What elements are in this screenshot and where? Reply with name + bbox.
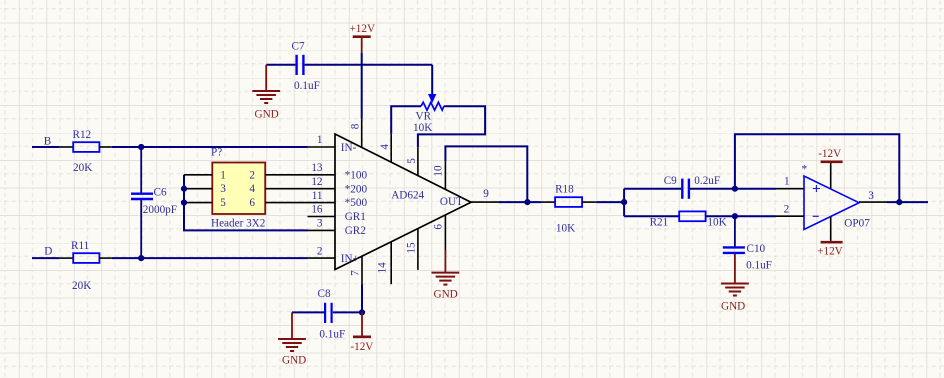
header pin 6 to AD624 pin 11 <box>265 202 335 204</box>
svg-text:10K: 10K <box>707 216 726 228</box>
svg-text:2: 2 <box>249 169 255 181</box>
wire +12V to VR wiper <box>431 65 433 96</box>
svg-text:6: 6 <box>433 224 445 230</box>
svg-text:1: 1 <box>784 176 790 188</box>
svg-text:10: 10 <box>433 165 445 177</box>
wire +12V rail <box>266 64 295 66</box>
pin 3 stub <box>308 229 336 231</box>
pin 14 stub <box>390 242 392 284</box>
pin 4 stub <box>390 134 392 162</box>
svg-text:0.1uF: 0.1uF <box>294 80 320 92</box>
pin 9 output stub <box>471 201 499 203</box>
wire C10 top lead <box>734 216 736 246</box>
svg-text:R11: R11 <box>71 240 89 252</box>
svg-text:OP07: OP07 <box>844 218 870 230</box>
resistor R11 right pin <box>99 257 111 259</box>
svg-text:*200: *200 <box>345 183 368 195</box>
svg-text:GR2: GR2 <box>345 225 366 237</box>
resistor R11 left pin <box>59 257 73 259</box>
junction header pin5 <box>181 200 187 206</box>
plus mark <box>813 185 820 192</box>
junction D/C6 <box>138 255 144 261</box>
wire R21 to node <box>706 215 735 217</box>
pin 1 stub <box>308 146 336 148</box>
power -12V (top) <box>830 162 832 189</box>
svg-text:R18: R18 <box>555 183 574 195</box>
svg-text:5: 5 <box>406 158 418 164</box>
wire to AD624 pin 1 <box>112 146 308 148</box>
svg-text:3: 3 <box>317 218 323 230</box>
svg-text:Header 3X2: Header 3X2 <box>211 218 265 230</box>
resistor R11 <box>73 253 99 263</box>
svg-text:*: * <box>802 164 808 176</box>
svg-text:11: 11 <box>312 190 323 202</box>
ground GND (pin 6) <box>444 250 446 272</box>
op-amp U? AD624 triangle <box>335 134 471 270</box>
svg-text:GND: GND <box>434 288 458 300</box>
header pin 2 to AD624 pin 13 <box>265 174 335 176</box>
junction header pin3 <box>181 186 187 192</box>
svg-text:-12V: -12V <box>350 341 373 353</box>
svg-text:OUT: OUT <box>440 196 463 208</box>
svg-text:C9: C9 <box>664 175 677 187</box>
power +12V (bottom) <box>830 217 832 242</box>
pin 10 stub <box>444 161 446 189</box>
svg-text:20K: 20K <box>72 280 91 292</box>
junction split node <box>621 199 627 205</box>
wire OUT to R18 <box>499 201 541 203</box>
junction pin7/C8/-12V <box>359 309 365 315</box>
svg-text:5: 5 <box>220 197 226 209</box>
wire C8 right lead <box>333 311 362 313</box>
svg-text:IN+: IN+ <box>341 253 359 265</box>
resistor R18 right pin <box>582 201 596 203</box>
svg-text:IN-: IN- <box>341 142 357 154</box>
svg-text:GND: GND <box>255 109 279 121</box>
header pin 1 <box>184 174 212 176</box>
wire to AD624 pin 2 <box>112 257 308 259</box>
header pin 3 <box>184 188 212 190</box>
wire VR right to pin 5 <box>418 106 485 147</box>
wire R18 to split node <box>596 201 624 203</box>
ground GND (C8) <box>291 312 293 338</box>
svg-text:B: B <box>44 135 51 147</box>
svg-text:14: 14 <box>377 262 389 274</box>
wire +12V down to AD624 pin 8 <box>361 53 363 119</box>
wire feedback loop <box>735 134 899 202</box>
pin 3 stub <box>859 201 887 203</box>
wire VR left to pin 4 <box>391 106 421 134</box>
svg-text:C7: C7 <box>292 41 305 53</box>
svg-text:3: 3 <box>868 190 874 202</box>
wire C9 to node <box>690 188 735 190</box>
svg-text:AD624: AD624 <box>391 189 424 201</box>
svg-text:1: 1 <box>317 134 323 146</box>
svg-text:C8: C8 <box>318 288 331 300</box>
svg-text:7: 7 <box>350 270 362 276</box>
svg-text:12: 12 <box>311 176 322 188</box>
capacitor C9 <box>681 179 683 199</box>
svg-text:P?: P? <box>211 147 222 159</box>
svg-text:16: 16 <box>311 204 323 216</box>
resistor R12 left pin <box>59 146 73 148</box>
svg-text:15: 15 <box>405 242 417 254</box>
svg-text:+12V: +12V <box>350 23 376 35</box>
op-amp U2 OP07 triangle <box>804 176 859 230</box>
svg-text:4: 4 <box>379 144 391 150</box>
svg-text:-12V: -12V <box>818 148 841 160</box>
junction R21/C10 <box>732 213 738 219</box>
wire lower rail to R21 <box>624 215 679 217</box>
svg-text:0.2uF: 0.2uF <box>694 175 720 187</box>
svg-text:4: 4 <box>249 183 255 195</box>
svg-text:R12: R12 <box>73 129 92 141</box>
pin 8 stub <box>361 119 363 147</box>
pin 16 stub <box>308 216 336 218</box>
power -12V <box>361 312 363 336</box>
wire node to OP07 pin1 <box>735 188 776 190</box>
svg-text:20K: 20K <box>73 162 92 174</box>
svg-text:6: 6 <box>249 197 255 209</box>
svg-text:+12V: +12V <box>817 246 843 258</box>
junction output/feedback <box>896 199 902 205</box>
wire B input <box>32 146 59 148</box>
svg-text:R21: R21 <box>650 216 669 228</box>
resistor R12 right pin <box>99 146 111 148</box>
wire upper rail to C9 <box>624 188 681 190</box>
pin 7 stub <box>361 257 363 285</box>
svg-text:10K: 10K <box>556 222 575 234</box>
svg-text:C6: C6 <box>154 187 167 199</box>
pin 2 stub <box>308 257 336 259</box>
ground GND (C7) <box>265 65 267 91</box>
junction B/C6 <box>138 144 144 150</box>
capacitor C8 <box>324 303 326 323</box>
potentiometer VR arrow <box>428 94 436 103</box>
svg-text:GND: GND <box>282 355 306 367</box>
capacitor C7 <box>295 55 297 75</box>
svg-text:10K: 10K <box>413 122 432 134</box>
svg-text:0.1uF: 0.1uF <box>746 259 772 271</box>
wire header left common <box>184 175 308 231</box>
svg-text:13: 13 <box>311 162 323 174</box>
minus mark <box>813 215 819 217</box>
wire C6 bottom lead <box>140 200 142 258</box>
junction OUT/loop <box>524 199 530 205</box>
resistor R18 left pin <box>541 201 555 203</box>
svg-text:*100: *100 <box>345 169 368 181</box>
wire C8 left lead <box>292 311 324 313</box>
wire output <box>887 201 928 203</box>
svg-text:8: 8 <box>350 123 362 129</box>
resistor R21 <box>679 211 705 221</box>
potentiometer VR zigzag <box>421 102 444 110</box>
header P? body <box>212 163 265 215</box>
svg-text:GND: GND <box>721 301 745 313</box>
svg-text:D: D <box>44 245 52 257</box>
resistor R18 <box>555 197 582 207</box>
pin 5 stub <box>417 147 419 175</box>
junction C9/feedback <box>732 186 738 192</box>
ground GND (C10) <box>734 254 736 283</box>
svg-text:*500: *500 <box>345 197 368 209</box>
pin 15 stub <box>417 229 419 270</box>
svg-text:0.1uF: 0.1uF <box>319 328 345 340</box>
svg-text:1: 1 <box>220 169 226 181</box>
svg-text:GR1: GR1 <box>345 211 366 223</box>
svg-text:3: 3 <box>220 183 226 195</box>
wire pin 7 down <box>361 285 363 313</box>
wire pin 10 loop to output <box>445 146 527 202</box>
pin 1 stub <box>776 188 804 190</box>
svg-text:9: 9 <box>483 188 489 200</box>
capacitor C10 <box>723 246 745 248</box>
wire D input <box>32 257 59 259</box>
capacitor C6 <box>131 192 153 194</box>
svg-text:2000pF: 2000pF <box>143 204 177 216</box>
svg-text:2: 2 <box>317 245 323 257</box>
wire C6 top lead <box>140 147 142 193</box>
resistor R12 <box>73 142 99 152</box>
header pin 5 <box>184 202 212 204</box>
pin 6 stub <box>444 215 446 250</box>
svg-text:2: 2 <box>784 203 790 215</box>
svg-text:C10: C10 <box>747 243 766 255</box>
svg-text:VR: VR <box>416 111 432 123</box>
wire split vertical <box>623 189 625 217</box>
header pin 4 to AD624 pin 12 <box>265 188 335 190</box>
wire node to OP07 pin2 <box>735 215 776 217</box>
pin 2 stub <box>776 215 804 217</box>
